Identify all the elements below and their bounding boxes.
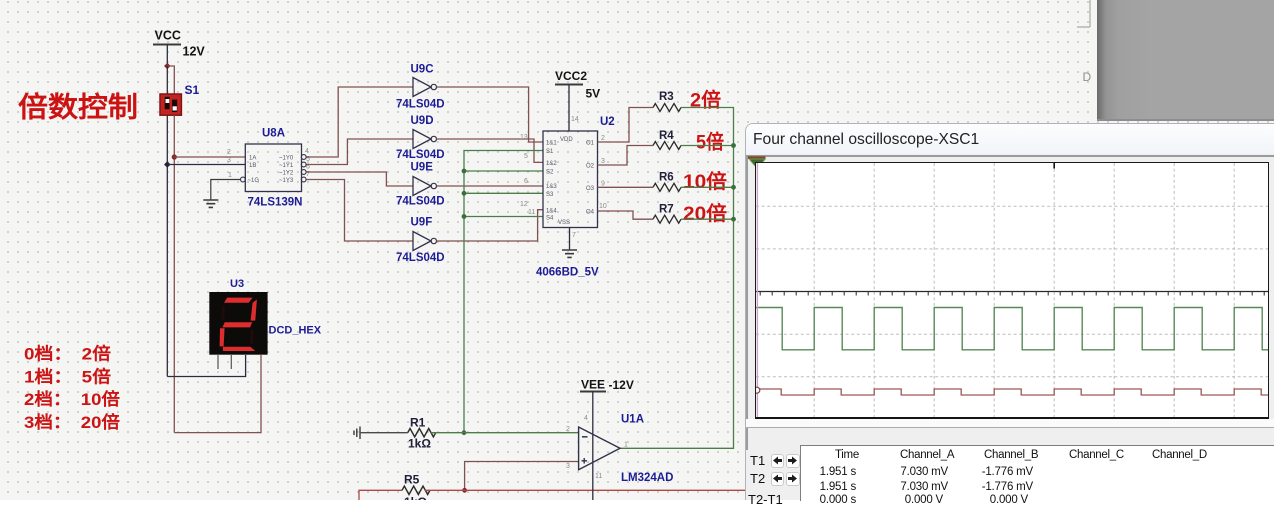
wire U9F out to U2 1&4 [437,210,544,241]
svg-text:3: 3 [601,158,605,165]
U8A pin numbers [227,148,310,179]
T1 right button [786,454,800,469]
ground near U8A [203,200,218,207]
wire VCC2 to U2 [568,85,570,132]
wire U9E out to U2 1&3 [437,185,544,187]
wire U9D out to U2 1&2 [437,139,544,162]
svg-text:U9D: U9D [411,115,434,127]
cursor T1 line [756,163,758,418]
row T1 values [806,466,856,478]
resistor R7 [653,215,681,223]
time axis [756,291,1274,295]
wire plus input net [465,462,579,491]
label 2倍 [690,89,721,112]
wire 1Y0 to U9C input [306,87,413,157]
svg-text:1&3: 1&3 [546,184,557,190]
wire U9C out to U2 1&1 [437,87,544,142]
table header Channel_D [1152,449,1207,461]
junction to 1A [172,154,177,159]
svg-text:S1: S1 [185,83,200,97]
inverter U9F [413,232,436,251]
svg-text:~1Y3: ~1Y3 [279,178,294,184]
junction at VCC branch [164,63,171,70]
svg-text:O1: O1 [586,141,595,147]
svg-text:~1Y0: ~1Y0 [279,156,294,162]
graph 3d inset left edge [746,155,748,450]
label U1A [621,414,644,426]
table header Channel_C [1069,449,1124,461]
label 倍数控制 [18,91,138,123]
svg-text:11: 11 [528,209,535,216]
label 10倍 [683,170,728,193]
svg-text:S2: S2 [546,170,554,176]
svg-text:5: 5 [524,153,528,160]
wire VEE power rail [592,392,594,501]
wire U2 VSS to ground [569,228,571,250]
wire input to R1 [360,432,408,434]
svg-text:74LS139N: 74LS139N [248,197,303,209]
svg-text:20倍: 20倍 [683,202,728,225]
svg-text:0档： 2倍: 0档： 2倍 [24,344,111,364]
green feedback bus (R3 lead, vertical, op-amp output) [620,108,734,449]
wire 1Y2 to U9E input [306,172,413,186]
svg-text:R6: R6 [659,172,674,184]
T2 left button [771,472,785,487]
wire to U8A pin 1A [174,156,245,158]
sheet border zone line [1077,0,1090,27]
junction R6 bus [731,185,736,190]
svg-text:4066BD_5V: 4066BD_5V [536,267,599,279]
channel A waveform (green) [756,307,1274,349]
panel divider [746,427,1274,429]
junction S-bus at R1 wire [462,430,467,435]
svg-text:1kΩ: 1kΩ [404,495,427,500]
green S-bus vertical [464,151,543,433]
row T2 values [806,481,856,493]
svg-text:4: 4 [305,148,309,155]
svg-text:R3: R3 [659,91,674,103]
label 20倍 [683,202,728,225]
svg-text:5V: 5V [586,87,601,101]
junction R4 bus [731,143,736,148]
op-amp U1A [579,427,620,470]
junction R7 bus [731,217,736,222]
svg-text:VCC: VCC [155,29,181,43]
label U8A [262,128,285,140]
label T2 [750,471,765,486]
label 74LS04D (U9E) [396,196,445,208]
resistor R4 [653,142,681,150]
label 2档 10倍 [24,389,120,409]
svg-text:2: 2 [601,135,605,142]
wire S4 [464,216,543,218]
svg-text:1档： 5倍: 1档： 5倍 [24,367,111,387]
svg-text:3档： 20倍: 3档： 20倍 [24,412,120,432]
svg-text:DCD_HEX: DCD_HEX [269,325,322,337]
svg-text:74LS04D: 74LS04D [396,99,445,111]
svg-text:VSS: VSS [558,220,570,226]
svg-text:7: 7 [572,232,576,239]
svg-text:1: 1 [624,442,628,449]
label 1kΩ (R5) [404,495,427,507]
junction S2 [462,169,467,174]
wire R5 to right [425,489,746,491]
channel B waveform (red) [756,389,1274,395]
junction S4 [462,214,467,219]
svg-text:VDD: VDD [560,137,573,143]
inverter U9C [413,78,436,97]
display pin 1 [217,355,219,369]
svg-text:12: 12 [520,201,528,208]
table header Channel_B [984,449,1038,461]
table header Time [835,449,859,461]
svg-text:U9C: U9C [411,64,434,76]
ground below U2 [562,250,577,257]
svg-text:9: 9 [601,181,605,188]
wire VCC to junction [166,45,168,67]
label R3 [659,91,674,103]
switch S1 (DIP-2) [160,94,181,115]
wire U2 O4 to R7 [598,211,654,219]
power VEE symbol [580,378,606,392]
svg-text:U2: U2 [600,116,615,128]
svg-text:1: 1 [228,172,232,179]
label U9C [411,64,434,76]
svg-text:S1: S1 [546,149,554,155]
scope cursor handle T1 [748,156,767,170]
wire R6 right lead [681,186,734,188]
label R5 [404,473,420,487]
svg-text:3: 3 [227,157,231,164]
svg-text:VCC2: VCC2 [555,69,587,83]
ground (input) left of R1 [354,427,360,440]
svg-text:1&1: 1&1 [546,141,557,147]
junction plus net at R5 wire [462,488,467,493]
scope graph area [755,162,1269,420]
svg-text:10倍: 10倍 [683,170,728,193]
svg-text:S4: S4 [546,216,554,222]
label U9E [411,162,434,174]
T1 left button [771,454,785,469]
label R1 [410,416,426,430]
label 74LS04D (U9F) [396,252,445,264]
wire R4 right lead [681,145,734,147]
wire to S1 pole 1 [166,66,168,95]
T2 right button [786,472,800,487]
label 3档 20倍 [24,412,120,432]
U2 pin numbers [520,116,607,239]
label 0档 2倍 [24,344,111,364]
wire S3 [464,192,543,194]
svg-text:1B: 1B [249,163,256,169]
label 74LS04D (U9D) [396,149,445,161]
power VCC symbol [153,29,181,45]
graph gridlines horizontal [756,206,1274,377]
svg-text:O3: O3 [586,186,595,192]
label 5倍 [696,131,724,154]
svg-text:VEE: VEE [581,378,605,392]
op-amp pin numbers [566,415,628,480]
svg-text:R4: R4 [659,130,674,142]
wire U2 O3 to R6 [598,186,654,188]
svg-text:~1Y2: ~1Y2 [279,171,294,177]
svg-text:10: 10 [599,203,607,210]
label -12V [609,378,634,392]
inverter U9E [413,177,436,196]
graph bottom light strip [746,419,1274,427]
svg-text:2: 2 [227,149,231,156]
junction S3 [462,191,467,196]
display pin 2 [230,355,232,369]
label 74LS139N [248,197,303,209]
wire S2 [464,170,543,172]
svg-text:1&4: 1&4 [546,208,557,214]
svg-text:2档： 10倍: 2档： 10倍 [24,389,120,409]
label 4066BD_5V [536,267,599,279]
label 5V [586,87,601,101]
measurement table [800,445,1274,502]
channel B position marker [754,387,760,393]
svg-text:~1G: ~1G [248,178,260,184]
wire 1Y3 to U9F input [306,180,413,242]
svg-text:3: 3 [566,463,570,470]
label U9F [411,217,433,229]
wire U2 O2 to R4 [598,146,654,166]
svg-text:S3: S3 [546,192,554,198]
svg-text:5倍: 5倍 [696,131,724,154]
svg-text:U8A: U8A [262,128,285,140]
label 1kΩ (R1) [408,437,431,451]
label DCD_HEX [269,325,322,337]
digit display U3 [209,292,267,355]
svg-text:U9E: U9E [411,162,434,174]
svg-text:11: 11 [595,473,602,480]
junction to 1B [164,161,171,168]
label T2-T1 [748,492,783,507]
oscilloscope window XSC1 [745,123,1274,500]
wire 1Y1 to U9D input [306,139,413,165]
svg-text:倍数控制: 倍数控制 [18,91,138,123]
resistor R1 [408,429,436,437]
wire to U8A pin 1B [167,164,245,166]
label U2 [600,116,615,128]
svg-text:1&2: 1&2 [546,161,557,167]
svg-text:2: 2 [566,426,570,433]
svg-text:-12V: -12V [609,378,634,392]
wire brown net to display pin 4 [174,355,261,433]
analog switch U2 body [543,131,598,228]
svg-text:U3: U3 [230,278,244,290]
svg-text:4: 4 [584,415,588,422]
svg-text:U1A: U1A [621,414,644,426]
label U3 [230,278,244,290]
wire R7 right lead [681,218,734,220]
label 74LS04D (U9C) [396,99,445,111]
svg-text:6: 6 [524,178,528,185]
label T1 [750,453,765,468]
label S1 [185,83,200,97]
wire U2 O1 to R3 [598,108,654,143]
svg-text:14: 14 [571,116,579,123]
row T2-T1 values [806,494,856,506]
overlapping window (gray, top right) [1097,0,1274,121]
svg-text:74LS04D: 74LS04D [396,149,445,161]
resistor R3 [653,104,681,112]
label 1档 5倍 [24,367,111,387]
svg-text:LM324AD: LM324AD [621,472,673,484]
wire ~1G to ground [211,180,241,200]
wire navy net to display pin 3 [167,355,245,377]
scope title bar [746,124,1274,154]
svg-text:74LS04D: 74LS04D [396,196,445,208]
svg-text:1kΩ: 1kΩ [408,437,431,451]
svg-text:74LS04D: 74LS04D [396,252,445,264]
power VCC2 symbol [555,69,587,85]
label R4 [659,130,674,142]
wire S1 pole1 down (navy net) [166,115,168,376]
svg-text:U9F: U9F [411,217,433,229]
label R7 [659,204,674,216]
svg-text:O2: O2 [586,164,595,170]
table header Channel_A [900,449,954,461]
svg-text:R1: R1 [410,416,426,430]
svg-text:1A: 1A [249,156,256,162]
wire branch to second pole [167,66,174,95]
label LM324AD [621,472,673,484]
svg-text:D: D [1083,70,1092,84]
svg-text:R7: R7 [659,204,674,216]
svg-text:O4: O4 [586,210,595,216]
wire S1 pole2 down (brown net) [173,115,175,432]
svg-text:13: 13 [520,134,528,141]
label 12V [183,45,206,59]
label U9D [411,115,434,127]
svg-text:R5: R5 [404,473,420,487]
sheet border zone letter D [1083,70,1092,84]
svg-text:12V: 12V [183,45,206,59]
inverter U9D [413,130,436,149]
wire R5 left / down [359,490,402,500]
svg-text:~1Y1: ~1Y1 [279,163,294,169]
trigger position tick [1053,163,1055,169]
resistor R5 [402,486,430,494]
graph gridlines vertical [814,163,1234,418]
label R6 [659,172,674,184]
wire R1 to op-amp minus [431,432,579,434]
resistor R6 [653,183,681,191]
decoder U8A body [241,144,307,192]
